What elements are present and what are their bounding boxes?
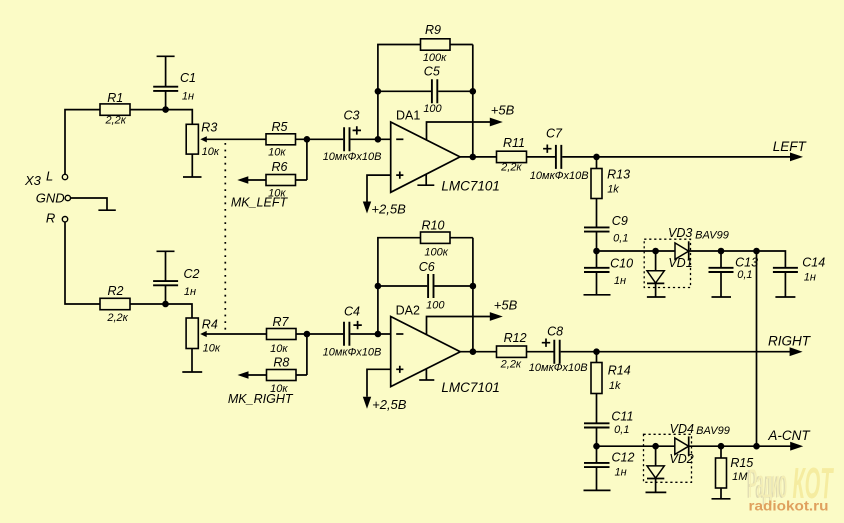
svg-text:R7: R7 bbox=[273, 315, 290, 329]
svg-text:radiokot.ru: radiokot.ru bbox=[749, 499, 829, 514]
wire wiper to R5 bbox=[206, 138, 267, 140]
svg-text:GND: GND bbox=[36, 191, 65, 206]
node DA2 inverting input bbox=[375, 331, 382, 338]
node DA1 inverting input bbox=[375, 136, 382, 143]
ground R15 bbox=[712, 498, 731, 500]
svg-text:1н: 1н bbox=[614, 275, 626, 287]
svg-text:C12: C12 bbox=[612, 450, 635, 464]
svg-text:VD2: VD2 bbox=[669, 452, 693, 466]
node VD2 anode bbox=[652, 443, 659, 450]
ground C2 top bbox=[157, 250, 175, 252]
op-amp DA2 bbox=[391, 304, 500, 395]
svg-text:2,2к: 2,2к bbox=[104, 115, 126, 127]
ground C12 bbox=[584, 489, 611, 491]
resistor R12 bbox=[497, 331, 527, 370]
svg-text:10мкФх10В: 10мкФх10В bbox=[323, 347, 382, 359]
arrow +5V DA2 bbox=[490, 312, 503, 321]
svg-text:R2: R2 bbox=[108, 284, 124, 298]
wire C8 to RIGHT output bbox=[561, 351, 791, 353]
svg-text:100: 100 bbox=[426, 300, 445, 312]
wire C7 to LEFT output bbox=[562, 156, 791, 158]
capacitor C13 bbox=[709, 251, 759, 297]
node DA2 output bbox=[470, 348, 477, 355]
svg-text:R12: R12 bbox=[504, 331, 527, 345]
capacitor C4 bbox=[323, 305, 382, 359]
svg-text:R5: R5 bbox=[272, 120, 288, 134]
wire DA2 +5V pin bbox=[427, 317, 496, 335]
svg-text:1н: 1н bbox=[184, 286, 196, 298]
svg-text:0,1: 0,1 bbox=[613, 232, 628, 244]
arrow +2.5V DA2 bbox=[363, 397, 371, 409]
svg-text:DA1: DA1 bbox=[396, 109, 420, 123]
capacitor C8 bbox=[529, 325, 588, 374]
wire C10 bottom bbox=[596, 272, 598, 295]
capacitor C14 bbox=[757, 251, 826, 297]
wire C9 to C10 bbox=[596, 232, 598, 268]
resistor R14 bbox=[591, 363, 631, 394]
svg-text:1н: 1н bbox=[182, 90, 194, 102]
svg-text:R14: R14 bbox=[608, 364, 631, 378]
svg-text:10к: 10к bbox=[268, 146, 286, 158]
wire wiper to R7 bbox=[206, 333, 267, 335]
ground R3 bbox=[183, 176, 202, 178]
wiper arrow R3 bbox=[200, 136, 207, 142]
node C9/C10 row bbox=[593, 248, 600, 255]
capacitor C12 bbox=[584, 450, 635, 478]
wire DA1 ground pin bbox=[425, 174, 427, 185]
wire feedback left vertical DA2 bbox=[378, 238, 421, 334]
node C5 right bbox=[470, 88, 477, 95]
svg-text:DA2: DA2 bbox=[396, 304, 420, 318]
svg-text:100к: 100к bbox=[424, 247, 448, 259]
wire R5 to C3 bbox=[296, 138, 344, 140]
resistor R10 bbox=[421, 219, 451, 259]
wire C11 to C12 bbox=[596, 428, 598, 463]
svg-text:L: L bbox=[46, 169, 53, 184]
dashed box BAV99 top bbox=[644, 239, 690, 287]
svg-text:R6: R6 bbox=[272, 160, 288, 174]
svg-text:C2: C2 bbox=[184, 267, 200, 281]
arrow +2.5V DA1 bbox=[363, 202, 371, 214]
capacitor C6 bbox=[419, 260, 446, 312]
svg-text:2,2к: 2,2к bbox=[500, 358, 522, 370]
svg-text:C10: C10 bbox=[610, 257, 633, 271]
ground C1 top bbox=[157, 55, 175, 57]
wire R7/R8 link bbox=[296, 334, 307, 375]
svg-text:R13: R13 bbox=[607, 167, 630, 181]
svg-text:R3: R3 bbox=[201, 121, 217, 135]
resistor R1 bbox=[100, 91, 130, 127]
svg-text:VD4: VD4 bbox=[670, 422, 694, 436]
capacitor C5 bbox=[423, 64, 442, 115]
svg-text:LMC7101: LMC7101 bbox=[441, 380, 500, 395]
svg-text:+5В: +5В bbox=[494, 298, 518, 313]
svg-text:1k: 1k bbox=[607, 184, 619, 196]
wire mid row left channel bbox=[597, 250, 757, 252]
potentiometer R3 bbox=[186, 121, 220, 159]
svg-text:R10: R10 bbox=[422, 219, 445, 233]
resistor R7 bbox=[267, 315, 297, 355]
svg-text:+2,5В: +2,5В bbox=[372, 397, 407, 412]
svg-text:R4: R4 bbox=[202, 318, 218, 332]
capacitor C1 bbox=[153, 56, 196, 109]
wire R7 to C4 bbox=[296, 333, 343, 335]
svg-text:10к: 10к bbox=[270, 343, 288, 355]
svg-text:0,1: 0,1 bbox=[737, 269, 752, 281]
svg-text:R1: R1 bbox=[107, 91, 123, 105]
svg-text:1k: 1k bbox=[609, 380, 621, 392]
node C6 right bbox=[470, 283, 477, 290]
wire R14 to C11 bbox=[596, 394, 598, 424]
svg-text:1н: 1н bbox=[804, 272, 816, 284]
svg-text:1н: 1н bbox=[615, 466, 627, 478]
svg-text:BAV99: BAV99 bbox=[695, 230, 729, 242]
node C6 left bbox=[375, 283, 382, 290]
svg-text:10мкФх10В: 10мкФх10В bbox=[530, 170, 589, 182]
svg-text:C7: C7 bbox=[546, 127, 563, 141]
svg-text:10мкФх10В: 10мкФх10В bbox=[323, 151, 382, 163]
arrow MK_LEFT bbox=[237, 176, 248, 183]
wire R2 to R4 bbox=[130, 304, 192, 318]
wire DA2 ground pin bbox=[425, 369, 427, 380]
svg-text:BAV99: BAV99 bbox=[696, 425, 730, 437]
ground DA1 bbox=[417, 184, 434, 186]
svg-text:2,2к: 2,2к bbox=[500, 162, 522, 174]
wire C4 to DA2 inverting input bbox=[350, 333, 390, 335]
resistor R8 bbox=[267, 356, 297, 395]
svg-text:100к: 100к bbox=[423, 52, 447, 64]
wire DA2 output to R12 bbox=[460, 351, 496, 353]
svg-text:+2,5В: +2,5В bbox=[371, 202, 406, 217]
node link top bbox=[753, 248, 760, 255]
svg-text:MK_RIGHT: MK_RIGHT bbox=[228, 392, 294, 406]
svg-text:X3: X3 bbox=[24, 173, 42, 188]
wire R pin to R2 bbox=[65, 222, 100, 304]
wire R12 to C8 bbox=[527, 351, 554, 353]
ground C14 bbox=[775, 296, 795, 298]
svg-text:C13: C13 bbox=[735, 256, 758, 270]
svg-text:VD3: VD3 bbox=[668, 226, 692, 240]
svg-text:+5В: +5В bbox=[491, 103, 515, 118]
capacitor C7 bbox=[530, 127, 589, 182]
ground C13 bbox=[712, 296, 732, 298]
capacitor C11 bbox=[584, 410, 633, 436]
wire C5 row bbox=[378, 90, 473, 92]
capacitor C9 bbox=[584, 214, 628, 244]
resistor R15 bbox=[716, 446, 754, 499]
node R5/R6 bbox=[304, 136, 311, 143]
node R15 top bbox=[718, 443, 725, 450]
svg-text:10к: 10к bbox=[202, 146, 220, 158]
svg-text:R9: R9 bbox=[425, 23, 441, 37]
wire R13 top bbox=[596, 157, 598, 169]
wire DA1 output to R11 bbox=[460, 156, 497, 158]
svg-text:R8: R8 bbox=[273, 356, 289, 370]
ground DA2 bbox=[419, 379, 434, 381]
svg-text:A-CNT: A-CNT bbox=[767, 428, 811, 443]
diode VD1 bbox=[647, 251, 693, 297]
potentiometer R4 bbox=[186, 318, 221, 355]
svg-text:LEFT: LEFT bbox=[773, 139, 808, 154]
svg-text:R: R bbox=[46, 211, 55, 226]
wire C6 row bbox=[378, 285, 473, 287]
svg-text:10мкФх10В: 10мкФх10В bbox=[529, 362, 588, 374]
wire R4 bottom bbox=[191, 349, 193, 373]
wire L pin to R1 bbox=[65, 110, 100, 175]
svg-text:100: 100 bbox=[423, 103, 442, 115]
ground VD1 bbox=[647, 296, 666, 298]
svg-text:R11: R11 bbox=[503, 136, 525, 150]
wire R14 top bbox=[596, 352, 598, 363]
wire A-CNT row bbox=[597, 445, 792, 447]
connector X3 bbox=[24, 169, 71, 226]
wire DA1 +5V pin bbox=[427, 122, 496, 141]
diode VD2 bbox=[647, 446, 694, 492]
arrow MK_RIGHT bbox=[238, 371, 249, 378]
wire DA2 noninverting input bbox=[367, 369, 391, 397]
wire link vertical bbox=[756, 251, 758, 446]
resistor R13 bbox=[591, 167, 630, 198]
ground R4 bbox=[182, 371, 202, 373]
arrow +5V DA1 bbox=[490, 118, 503, 127]
wire feedback right vertical DA1 bbox=[450, 45, 473, 157]
svg-text:RIGHT: RIGHT bbox=[768, 334, 812, 349]
capacitor C3 bbox=[323, 109, 382, 163]
arrow A-CNT bbox=[790, 442, 803, 451]
wire R13 to C9 bbox=[596, 199, 598, 228]
diode VD3 bbox=[668, 226, 692, 261]
op-amp DA1 bbox=[391, 109, 500, 194]
node C13 top bbox=[718, 248, 725, 255]
resistor R9 bbox=[421, 23, 451, 64]
ground VD2 bbox=[646, 491, 667, 493]
resistor R2 bbox=[100, 284, 130, 324]
svg-text:C14: C14 bbox=[802, 256, 825, 270]
wire feedback left vertical DA1 bbox=[378, 45, 421, 140]
node link bottom bbox=[753, 443, 760, 450]
svg-text:C3: C3 bbox=[344, 109, 360, 123]
arrow LEFT bbox=[790, 153, 803, 162]
gang dotted link R3-R4 bbox=[224, 143, 226, 330]
wire R5/R6 link bbox=[296, 139, 307, 180]
dashed box BAV99 bottom bbox=[644, 434, 692, 482]
node LEFT row R13 bbox=[593, 154, 600, 161]
wire R3 bottom bbox=[191, 154, 193, 177]
svg-text:C6: C6 bbox=[419, 260, 435, 274]
svg-text:C1: C1 bbox=[180, 71, 196, 85]
svg-text:C5: C5 bbox=[424, 64, 440, 78]
capacitor C10 bbox=[584, 257, 633, 287]
wire C3 to DA1 inverting input bbox=[350, 138, 390, 140]
wire GND pin bbox=[71, 198, 107, 210]
resistor R11 bbox=[497, 136, 527, 174]
svg-text:10к: 10к bbox=[203, 343, 221, 355]
node R7/R8 bbox=[304, 331, 311, 338]
svg-text:C4: C4 bbox=[344, 305, 360, 319]
ground GND pin bbox=[98, 209, 115, 211]
wire C12 bottom bbox=[596, 467, 598, 490]
node VD1 anode bbox=[652, 248, 659, 255]
wire R1 to R3 bbox=[130, 110, 192, 125]
resistor R5 bbox=[266, 120, 296, 158]
svg-text:C9: C9 bbox=[612, 214, 628, 228]
node RIGHT row R14 bbox=[593, 348, 600, 355]
diode VD4 bbox=[670, 422, 694, 456]
wiper arrow R4 bbox=[200, 331, 207, 337]
node R2/C2 junction bbox=[162, 301, 169, 308]
svg-text:VD1: VD1 bbox=[668, 256, 692, 270]
arrow RIGHT bbox=[790, 347, 803, 356]
wire R8 arrow bbox=[246, 374, 266, 376]
svg-text:C8: C8 bbox=[547, 325, 563, 339]
wire R11 to C7 bbox=[527, 156, 556, 158]
svg-text:C11: C11 bbox=[611, 410, 633, 424]
wire feedback right vertical DA2 bbox=[450, 238, 473, 352]
node C11/C12 row bbox=[593, 443, 600, 450]
capacitor C2 bbox=[153, 251, 199, 304]
ground C10 bbox=[584, 294, 611, 296]
svg-text:MK_LEFT: MK_LEFT bbox=[231, 196, 289, 210]
node R1/C1 junction bbox=[162, 106, 169, 113]
svg-text:2,2к: 2,2к bbox=[106, 312, 128, 324]
svg-text:LMC7101: LMC7101 bbox=[441, 179, 500, 194]
resistor R6 bbox=[266, 160, 296, 199]
svg-text:0,1: 0,1 bbox=[614, 424, 629, 436]
wire DA1 noninverting input bbox=[367, 175, 391, 201]
wire R6 arrow bbox=[246, 179, 266, 181]
node C5 left bbox=[375, 88, 382, 95]
node DA1 output bbox=[470, 154, 477, 161]
